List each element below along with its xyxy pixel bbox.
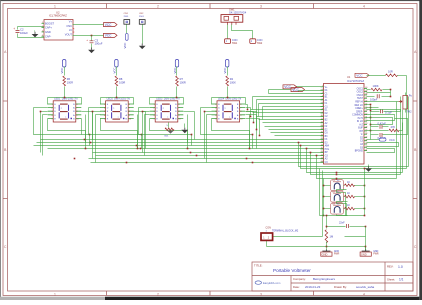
power flag VCC xyxy=(355,73,369,77)
svg-text:VCC: VCC xyxy=(284,85,291,89)
svg-text:2019-01-23: 2019-01-23 xyxy=(305,285,321,289)
capacitor 0.47uF xyxy=(371,126,379,128)
svg-text:2501: 2501 xyxy=(124,16,130,18)
svg-text:3: 3 xyxy=(322,92,323,94)
resistor R8 xyxy=(115,76,118,86)
svg-text:100R: 100R xyxy=(67,80,73,84)
resistor 47K xyxy=(389,129,399,132)
svg-text:REV:: REV: xyxy=(387,265,394,269)
svg-text:CAP+: CAP+ xyxy=(45,26,52,30)
resistor 100K osc xyxy=(367,89,371,91)
wire xyxy=(212,97,246,99)
svg-text:29: 29 xyxy=(365,123,367,125)
svg-text:14: 14 xyxy=(321,128,323,130)
svg-text:CREF-: CREF- xyxy=(356,111,363,113)
svg-text:VCC: VCC xyxy=(123,43,127,49)
power flag VCC xyxy=(63,60,66,68)
wire xyxy=(116,67,118,76)
svg-text:0.1uF: 0.1uF xyxy=(385,111,392,115)
svg-text:ICL7107CPLZ: ICL7107CPLZ xyxy=(347,79,364,83)
svg-text:VCC: VCC xyxy=(112,68,116,74)
svg-text:×: × xyxy=(73,30,75,34)
svg-text:21: 21 xyxy=(321,151,323,153)
wire bus: IC left fan xyxy=(269,93,324,95)
wire xyxy=(64,87,66,98)
wire xyxy=(367,115,395,121)
svg-text:GND: GND xyxy=(361,253,367,257)
wire xyxy=(227,67,229,76)
svg-text:19: 19 xyxy=(321,144,323,146)
title block xyxy=(252,262,413,291)
svg-text:souvick_saha: souvick_saha xyxy=(356,285,375,289)
ground xyxy=(91,48,93,50)
svg-text:21: 21 xyxy=(365,149,367,151)
svg-text:VCC: VCC xyxy=(223,68,227,74)
svg-text:1: 1 xyxy=(322,86,323,88)
svg-text:20: 20 xyxy=(321,148,323,150)
capacitor 0.1uF xyxy=(367,107,379,109)
svg-text:7: 7 xyxy=(322,105,323,107)
power flag VCC xyxy=(297,86,321,88)
ground PWRGND xyxy=(322,250,330,252)
wire xyxy=(367,143,399,147)
svg-text:REF LO: REF LO xyxy=(355,105,364,107)
capacitor 100pF xyxy=(367,96,375,98)
svg-text:Drawn By:: Drawn By: xyxy=(334,285,347,289)
power flag VCC xyxy=(104,23,118,27)
svg-text:OSC: OSC xyxy=(66,24,72,28)
svg-text:GND: GND xyxy=(322,253,328,257)
svg-text:1K: 1K xyxy=(347,192,350,195)
svg-text:OSC3: OSC3 xyxy=(357,95,364,97)
resistor R5 1M xyxy=(325,230,328,243)
svg-text:A-Z: A-Z xyxy=(359,123,363,126)
resistor R1 10R xyxy=(367,75,386,77)
ground xyxy=(142,25,144,44)
svg-text:VCC: VCC xyxy=(105,23,112,27)
svg-text:4: 4 xyxy=(363,292,365,296)
svg-text:100K: 100K xyxy=(230,80,236,84)
svg-text:1/1: 1/1 xyxy=(399,278,404,282)
wire xyxy=(324,208,331,210)
svg-text:TEST: TEST xyxy=(357,98,363,100)
svg-text:PWR: PWR xyxy=(334,254,340,256)
svg-text:16: 16 xyxy=(321,135,323,137)
resistor R2 xyxy=(226,76,229,86)
svg-text:3: 3 xyxy=(260,292,262,296)
svg-text:100uF: 100uF xyxy=(95,42,103,46)
svg-text:5: 5 xyxy=(322,99,323,101)
svg-text:GND: GND xyxy=(334,251,339,253)
svg-text:1: 1 xyxy=(54,5,56,9)
wire xyxy=(176,67,178,76)
svg-text:REF HI: REF HI xyxy=(355,101,363,103)
svg-text:Company:: Company: xyxy=(293,277,306,281)
wire xyxy=(48,97,82,99)
ground PWRGND xyxy=(365,247,367,250)
svg-text:CN1: CN1 xyxy=(124,13,129,15)
svg-text:OSC1: OSC1 xyxy=(357,88,364,90)
svg-text:40: 40 xyxy=(365,87,367,89)
svg-text:VCC: VCC xyxy=(105,34,112,38)
power flag VCC xyxy=(226,60,229,68)
svg-text:GND: GND xyxy=(45,30,51,34)
svg-text:+: + xyxy=(13,27,15,31)
svg-text:BPGND: BPGND xyxy=(355,151,364,153)
svg-text:100uF: 100uF xyxy=(20,31,28,35)
svg-text:17: 17 xyxy=(321,138,323,140)
svg-text:CAP-: CAP- xyxy=(45,34,51,38)
svg-text:CON: CON xyxy=(266,226,272,229)
svg-text:c: c xyxy=(65,116,66,118)
svg-text:6: 6 xyxy=(322,102,323,104)
wire xyxy=(326,242,328,247)
svg-text:38: 38 xyxy=(365,94,367,96)
node flag BAT- xyxy=(250,39,256,44)
wire xyxy=(227,25,229,39)
wire xyxy=(345,236,366,238)
svg-text:SW2: SW2 xyxy=(257,42,263,45)
wire xyxy=(269,89,291,91)
svg-text:AB4: AB4 xyxy=(325,145,330,148)
svg-text:TM2: TM2 xyxy=(407,111,413,114)
resistor base R2 xyxy=(344,196,345,198)
svg-text:4: 4 xyxy=(322,95,323,97)
transistor Q3 xyxy=(331,203,344,214)
svg-text:0.47uF: 0.47uF xyxy=(378,122,387,126)
svg-text:Being Engineers: Being Engineers xyxy=(313,277,336,281)
wire xyxy=(252,97,254,110)
wire xyxy=(116,87,118,98)
wire bus: display interconnect xyxy=(41,139,324,141)
resistor base R3 xyxy=(344,208,345,210)
svg-text:9: 9 xyxy=(322,112,323,114)
svg-text:28: 28 xyxy=(365,126,367,128)
svg-text:VOUT: VOUT xyxy=(65,33,73,37)
svg-text:12: 12 xyxy=(321,122,323,124)
power flag VCC xyxy=(291,88,305,92)
svg-text:1K: 1K xyxy=(347,181,350,184)
power flag VCC xyxy=(115,60,118,68)
svg-text:22nF: 22nF xyxy=(339,221,345,224)
wire xyxy=(324,196,331,198)
node flag VCC xyxy=(367,139,380,141)
svg-text:22: 22 xyxy=(321,154,323,156)
svg-text:ICL7660CPAZ: ICL7660CPAZ xyxy=(49,14,67,18)
svg-text:PWR: PWR xyxy=(373,254,379,256)
svg-text:LV: LV xyxy=(69,28,72,32)
svg-text:EasyEDA.com: EasyEDA.com xyxy=(263,281,281,285)
svg-text:15: 15 xyxy=(321,131,323,133)
wire xyxy=(390,90,392,97)
svg-text:IN LO: IN LO xyxy=(357,121,363,123)
wire xyxy=(73,24,104,26)
svg-text:8: 8 xyxy=(322,108,323,110)
svg-text:100pF: 100pF xyxy=(370,98,378,102)
svg-text:1K: 1K xyxy=(347,204,350,207)
power flag VCC xyxy=(104,33,118,37)
svg-text:CREF+: CREF+ xyxy=(355,108,363,110)
svg-text:c: c xyxy=(118,116,119,118)
svg-text:+: + xyxy=(86,38,88,42)
svg-text:TERMINAL_BLOCK_M2: TERMINAL_BLOCK_M2 xyxy=(272,230,299,233)
wire xyxy=(250,108,252,117)
svg-text:100K: 100K xyxy=(373,84,379,88)
buzzer under LED3 xyxy=(168,123,170,128)
svg-text:SW1: SW1 xyxy=(232,42,238,45)
wire xyxy=(18,26,45,28)
svg-text:2501: 2501 xyxy=(139,16,145,18)
resistor R7 xyxy=(176,76,179,86)
wire xyxy=(320,215,365,217)
svg-text:IN HI: IN HI xyxy=(358,118,364,120)
capacitor 0.22uF xyxy=(371,134,379,136)
svg-text:25: 25 xyxy=(365,136,367,138)
power flag VCC xyxy=(126,25,128,34)
power flag VCC xyxy=(175,60,178,68)
wire xyxy=(253,112,255,123)
svg-text:10: 10 xyxy=(321,115,323,117)
potentiometer Rv xyxy=(403,96,408,110)
wire xyxy=(256,115,258,130)
svg-text:3: 3 xyxy=(260,5,262,9)
svg-text:POL: POL xyxy=(325,149,330,151)
svg-text:47K: 47K xyxy=(391,125,396,129)
svg-text:TITLE:: TITLE: xyxy=(254,264,263,268)
svg-text:1: 1 xyxy=(54,292,56,296)
wire xyxy=(227,87,229,98)
transistor Q1 xyxy=(331,180,344,191)
wire xyxy=(259,119,261,136)
svg-text:U1: U1 xyxy=(347,75,351,79)
svg-text:23: 23 xyxy=(365,143,367,145)
resistor R6 xyxy=(63,76,66,86)
svg-text:4: 4 xyxy=(363,5,365,9)
svg-text:23: 23 xyxy=(321,158,323,160)
svg-text:c: c xyxy=(167,116,168,118)
svg-text:LED3: LED3 xyxy=(156,98,163,101)
svg-text:100R: 100R xyxy=(119,80,125,84)
ground xyxy=(368,165,370,167)
svg-text:V+: V+ xyxy=(69,20,73,24)
wire xyxy=(299,90,324,92)
svg-text:11: 11 xyxy=(321,118,323,120)
svg-text:V-: V- xyxy=(361,134,363,136)
svg-text:VCC: VCC xyxy=(389,138,395,142)
svg-text:100R: 100R xyxy=(180,80,186,84)
svg-text:24: 24 xyxy=(321,161,323,163)
op-amp U2 xyxy=(44,20,73,41)
capacitor 22nF xyxy=(327,226,346,228)
svg-text:37: 37 xyxy=(365,97,367,99)
wire xyxy=(324,185,331,187)
svg-text:13: 13 xyxy=(321,125,323,127)
svg-text:10R: 10R xyxy=(388,70,393,74)
wire xyxy=(247,105,249,110)
wire bus: wrap to right xyxy=(299,143,409,167)
svg-text:2: 2 xyxy=(157,292,159,296)
svg-text:LED1: LED1 xyxy=(54,98,61,101)
wire xyxy=(176,87,178,98)
svg-text:2: 2 xyxy=(157,5,159,9)
svg-text:SK-12D07VG4: SK-12D07VG4 xyxy=(229,11,247,15)
svg-text:CN2: CN2 xyxy=(139,13,144,15)
capacitor C3 xyxy=(91,35,93,37)
svg-text:Portable Voltmeter: Portable Voltmeter xyxy=(273,268,311,273)
svg-text:33: 33 xyxy=(365,110,367,112)
svg-text:LED2: LED2 xyxy=(107,98,114,101)
svg-text:VCC: VCC xyxy=(356,73,363,77)
wire xyxy=(367,101,399,103)
svg-text:GND: GND xyxy=(373,251,378,253)
wire xyxy=(150,97,184,99)
svg-text:LED4: LED4 xyxy=(218,98,225,101)
svg-text:BP: BP xyxy=(325,152,329,154)
svg-text:BOOST: BOOST xyxy=(45,21,54,25)
svg-text:1M: 1M xyxy=(330,235,334,239)
svg-text:Date:: Date: xyxy=(293,285,300,289)
svg-text:18: 18 xyxy=(321,141,323,143)
svg-text:OSC2: OSC2 xyxy=(357,92,364,94)
wire xyxy=(101,97,134,99)
wire xyxy=(64,67,66,76)
ground xyxy=(34,31,36,32)
wire: base bus xyxy=(323,179,325,216)
svg-text:1.0: 1.0 xyxy=(398,265,403,269)
svg-text:INT: INT xyxy=(359,131,363,133)
ground xyxy=(184,124,186,128)
svg-text:Sheet:: Sheet: xyxy=(387,277,395,281)
node flag BAT+ xyxy=(225,39,231,44)
wire xyxy=(364,169,366,216)
resistor base R1 xyxy=(344,185,345,187)
svg-text:c: c xyxy=(229,116,230,118)
svg-text:26: 26 xyxy=(365,133,367,135)
svg-text:VCC: VCC xyxy=(60,68,64,74)
capacitor C2 xyxy=(17,27,19,30)
wire xyxy=(406,76,408,169)
svg-text:BUF: BUF xyxy=(358,128,363,130)
svg-text:COMMON: COMMON xyxy=(352,115,363,117)
transistor Q2 xyxy=(331,191,344,202)
